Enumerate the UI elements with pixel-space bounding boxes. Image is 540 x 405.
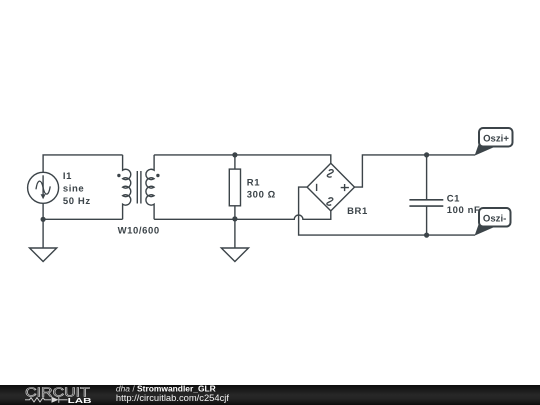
pin mark minus left bbox=[316, 184, 318, 191]
wire I1 top to transformer primary top bbox=[43, 155, 123, 172]
wire R1 bottom stub bbox=[234, 206, 236, 219]
current source I1 bbox=[28, 172, 59, 203]
wire bridge plus to top rail bbox=[355, 155, 476, 187]
wire R1 top stub bbox=[234, 155, 236, 169]
pin mark ac bottom bbox=[327, 198, 333, 205]
flag Oszi+ bbox=[475, 128, 513, 156]
pin mark ac top bbox=[327, 170, 333, 177]
svg-text:sine: sine bbox=[63, 184, 84, 195]
label C1 value bbox=[447, 193, 481, 216]
wire primary bottom bbox=[43, 218, 123, 220]
transformer W10/600 primary winding bbox=[117, 155, 131, 219]
svg-text:W10/600: W10/600 bbox=[118, 225, 160, 236]
capacitor C1 bbox=[409, 155, 443, 235]
node junction at R1 bottom bbox=[232, 216, 237, 221]
svg-text:LAB: LAB bbox=[68, 395, 92, 404]
wire secondary top to bridge top bbox=[154, 155, 331, 163]
bridge rectifier BR1 bbox=[307, 163, 354, 211]
wire secondary bottom to bridge bottom with crossover hop bbox=[154, 211, 331, 219]
footer CircuitLab logo bbox=[0, 385, 540, 405]
svg-text:300 Ω: 300 Ω bbox=[247, 190, 276, 201]
flag Oszi- bbox=[475, 208, 511, 236]
svg-text:50 Hz: 50 Hz bbox=[63, 196, 91, 207]
svg-text:100 nF: 100 nF bbox=[447, 205, 481, 216]
ground symbol below R1 bbox=[221, 219, 248, 262]
svg-text:BR1: BR1 bbox=[347, 206, 368, 217]
svg-text:Oszi+: Oszi+ bbox=[483, 134, 509, 145]
wire bridge minus to bottom rail bbox=[299, 187, 475, 235]
ground symbol below I1 bbox=[30, 219, 57, 261]
label W10/600 bbox=[118, 225, 160, 236]
transformer core bbox=[137, 171, 141, 204]
node junction at C1 bottom bbox=[424, 233, 429, 238]
label I1 value bbox=[63, 171, 91, 207]
svg-text:R1: R1 bbox=[247, 177, 260, 188]
label R1 value bbox=[247, 177, 276, 200]
svg-text:C1: C1 bbox=[447, 193, 460, 204]
node junction at I1 bottom bbox=[41, 217, 46, 222]
transformer secondary winding bbox=[146, 155, 160, 219]
svg-text:http://circuitlab.com/c254cjf: http://circuitlab.com/c254cjf bbox=[116, 391, 229, 402]
svg-text:I1: I1 bbox=[63, 171, 72, 182]
wire I1 bottom to ground node bbox=[42, 203, 44, 219]
resistor R1 bbox=[229, 169, 240, 206]
node junction at C1 top bbox=[424, 152, 429, 157]
svg-text:Oszi-: Oszi- bbox=[483, 214, 506, 225]
pin mark plus right bbox=[341, 184, 349, 191]
label BR1 bbox=[347, 206, 368, 217]
footer bar bbox=[0, 385, 540, 405]
node junction at R1 top bbox=[232, 152, 237, 157]
